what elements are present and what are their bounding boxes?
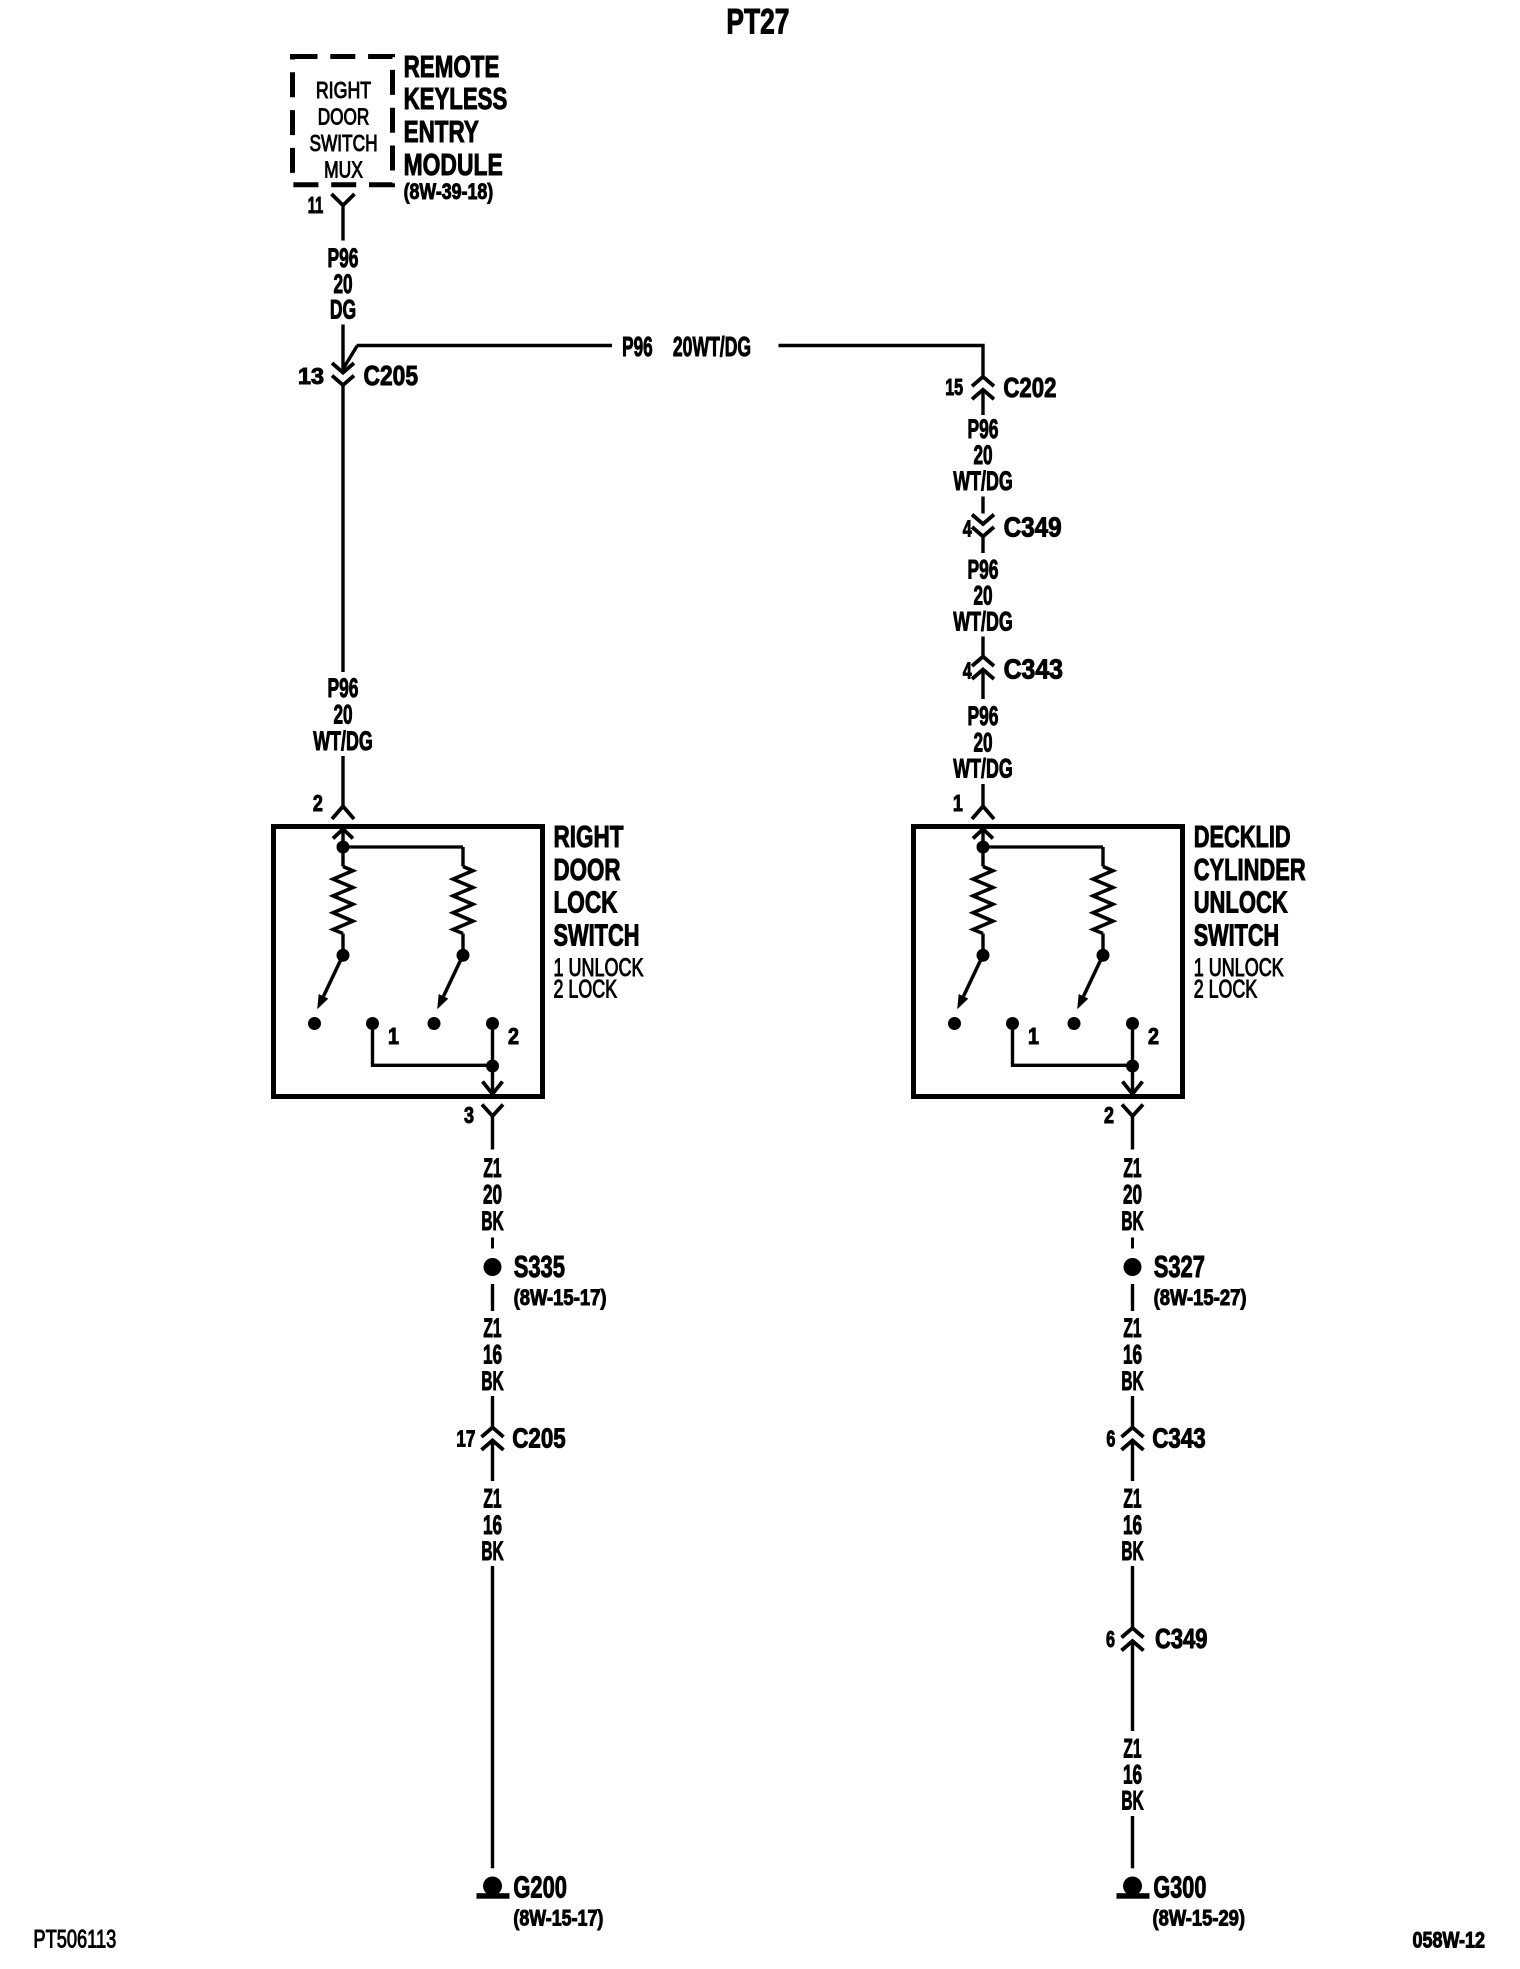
svg-text:BK: BK [1121,1366,1144,1396]
svg-text:PT27: PT27 [726,3,789,42]
svg-text:(8W-15-17): (8W-15-17) [513,1905,603,1930]
svg-text:(8W-15-27): (8W-15-27) [1154,1285,1247,1310]
svg-text:17: 17 [456,1426,475,1452]
svg-text:LOCK: LOCK [554,885,618,920]
svg-text:(8W-15-17): (8W-15-17) [514,1285,607,1310]
svg-text:058W-12: 058W-12 [1413,1928,1486,1953]
svg-text:C349: C349 [1004,512,1062,543]
svg-text:WT/DG: WT/DG [313,726,373,756]
svg-text:RIGHT: RIGHT [316,77,371,103]
svg-text:(8W-39-18): (8W-39-18) [404,179,494,204]
svg-text:BK: BK [481,1536,504,1566]
svg-text:C205: C205 [364,360,419,391]
svg-text:DOOR: DOOR [318,104,370,130]
svg-text:15: 15 [945,374,963,400]
svg-text:2: 2 [508,1023,519,1049]
svg-text:G300: G300 [1153,1870,1206,1905]
svg-text:C349: C349 [1155,1623,1208,1654]
svg-text:1: 1 [388,1023,399,1049]
svg-text:13: 13 [298,363,324,389]
svg-text:1: 1 [953,790,963,816]
svg-text:2 LOCK: 2 LOCK [554,976,618,1004]
svg-text:SWITCH: SWITCH [1194,918,1280,953]
svg-text:4: 4 [963,658,972,684]
svg-text:2 LOCK: 2 LOCK [1194,976,1258,1004]
svg-text:P96: P96 [622,331,653,362]
svg-text:RIGHT: RIGHT [554,819,624,854]
svg-text:C202: C202 [1003,372,1056,403]
svg-text:20WT/DG: 20WT/DG [673,331,751,362]
svg-text:DG: DG [330,295,356,325]
svg-text:C343: C343 [1004,654,1063,685]
svg-text:MUX: MUX [324,157,363,183]
svg-text:2: 2 [313,790,323,816]
svg-text:UNLOCK: UNLOCK [1194,885,1288,920]
svg-text:2: 2 [1148,1023,1159,1049]
svg-text:2: 2 [1104,1102,1114,1128]
svg-text:MODULE: MODULE [404,147,503,182]
svg-text:BK: BK [1121,1536,1144,1566]
svg-text:SWITCH: SWITCH [309,130,377,156]
svg-text:11: 11 [308,192,324,218]
svg-text:WT/DG: WT/DG [953,466,1013,496]
svg-text:6: 6 [1106,1426,1115,1452]
svg-text:3: 3 [464,1102,474,1128]
svg-text:S327: S327 [1154,1249,1205,1284]
svg-text:(8W-15-29): (8W-15-29) [1153,1905,1246,1930]
svg-text:CYLINDER: CYLINDER [1194,852,1306,887]
svg-text:DECKLID: DECKLID [1194,819,1291,854]
svg-text:BK: BK [1121,1206,1144,1236]
svg-text:C205: C205 [512,1423,565,1454]
svg-text:BK: BK [481,1206,504,1236]
svg-text:SWITCH: SWITCH [554,918,640,953]
svg-text:G200: G200 [513,1870,567,1905]
svg-text:REMOTE: REMOTE [404,49,500,84]
svg-text:KEYLESS: KEYLESS [404,81,508,116]
svg-text:WT/DG: WT/DG [953,754,1013,784]
svg-text:S335: S335 [514,1249,565,1284]
svg-text:BK: BK [481,1366,504,1396]
svg-text:ENTRY: ENTRY [404,114,480,149]
svg-text:4: 4 [963,516,972,542]
svg-text:C343: C343 [1152,1423,1205,1454]
svg-text:WT/DG: WT/DG [953,607,1013,637]
svg-text:PT506113: PT506113 [33,1925,116,1953]
svg-text:6: 6 [1106,1626,1115,1652]
svg-text:1: 1 [1028,1023,1039,1049]
svg-text:BK: BK [1121,1786,1144,1816]
svg-text:DOOR: DOOR [554,852,621,887]
